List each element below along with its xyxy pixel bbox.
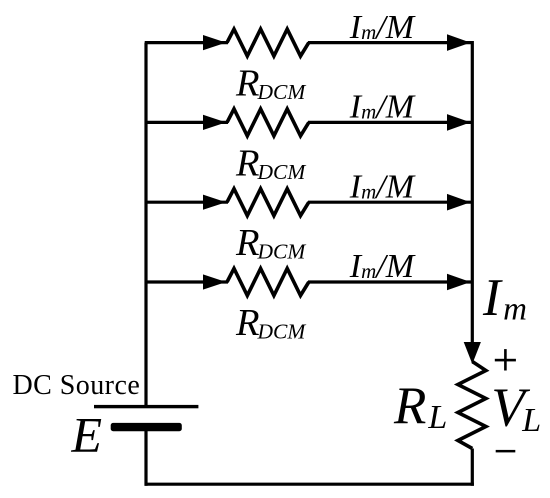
arrowhead load current I_m down: [464, 342, 481, 364]
svg-text:VL: VL: [491, 377, 541, 440]
svg-text:Im: Im: [482, 269, 527, 328]
arrowhead branch 1 mid: [203, 35, 226, 50]
arrowhead branch 1 end: [447, 34, 471, 51]
wire right vertical below load resistor: [471, 449, 474, 486]
svg-text:E: E: [71, 407, 103, 463]
arrowhead branch 2 end: [447, 114, 471, 131]
wire branch 4 right segment: [308, 280, 471, 283]
wire left vertical bus: [144, 43, 147, 407]
svg-text:RDCM: RDCM: [235, 63, 306, 105]
svg-text:RL: RL: [393, 377, 447, 436]
arrowhead branch 3 end: [447, 194, 471, 211]
resistor R_DCM branch 1 zigzag: [227, 29, 309, 56]
label plus sign: [495, 349, 516, 370]
resistor R_DCM branch 3 zigzag: [227, 189, 309, 216]
wire branch 2 right segment: [308, 121, 471, 124]
wire bottom horizontal: [145, 483, 474, 486]
svg-text:Im/M: Im/M: [349, 89, 416, 126]
wire right vertical bus: [471, 41, 474, 346]
resistor R_DCM branch 2 zigzag: [227, 109, 309, 136]
arrowhead branch 4 end: [447, 274, 471, 291]
wire branch 4 left segment: [146, 280, 228, 283]
wire branch 3 left segment: [146, 201, 228, 204]
svg-text:Im/M: Im/M: [349, 9, 416, 46]
label minus sign: [496, 450, 516, 453]
svg-text:RDCM: RDCM: [235, 222, 306, 264]
arrowhead branch 2 mid: [203, 115, 226, 130]
svg-text:DC Source: DC Source: [13, 370, 141, 401]
wire left vertical below battery: [144, 429, 147, 486]
battery E top plate (thin long): [94, 405, 198, 408]
wire branch 1 left segment: [145, 41, 228, 44]
wire branch 2 left segment: [146, 121, 228, 124]
battery E bottom plate (thick short): [111, 423, 182, 431]
wire branch 3 right segment: [308, 201, 471, 204]
resistor R_DCM branch 4 zigzag: [227, 269, 309, 296]
svg-text:Im/M: Im/M: [349, 248, 416, 285]
svg-text:Im/M: Im/M: [349, 168, 416, 205]
svg-text:RDCM: RDCM: [235, 142, 306, 184]
wire branch 1 right segment: [308, 41, 471, 44]
resistor R_L vertical zigzag: [458, 362, 486, 449]
svg-text:RDCM: RDCM: [235, 302, 306, 344]
arrowhead branch 3 mid: [203, 195, 226, 210]
arrowhead branch 4 mid: [203, 274, 226, 289]
